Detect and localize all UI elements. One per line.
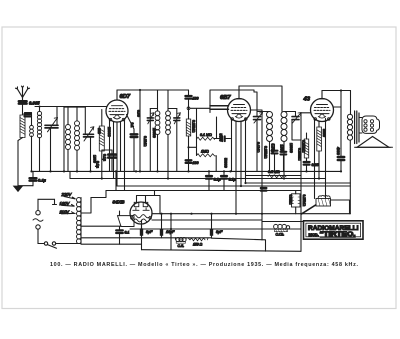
svg-text:8µF: 8µF	[216, 230, 223, 234]
IF2 secondary coil	[281, 112, 296, 179]
wire x=341 down	[340, 91, 342, 157]
capacitor 100	[185, 90, 191, 119]
svg-text:150 Ω: 150 Ω	[193, 243, 203, 247]
svg-text:0.005: 0.005	[29, 101, 40, 106]
tube V1 6D7	[106, 90, 128, 122]
tube V2 grid box	[210, 90, 254, 113]
svg-text:0.003: 0.003	[271, 144, 275, 153]
capacitor 0.003	[272, 144, 278, 171]
switch to transformer	[56, 243, 77, 245]
wire tube2 plate right	[251, 110, 263, 214]
svg-text:0.25MΩ: 0.25MΩ	[191, 120, 195, 133]
antenna coil L1	[25, 113, 34, 172]
switch contact a	[44, 242, 47, 245]
svg-text:300: 300	[97, 128, 101, 134]
resistor 0.1 Mohm horizontal	[197, 137, 215, 140]
svg-text:110V: 110V	[60, 209, 71, 214]
speaker cone	[355, 137, 393, 148]
wire IF1 secondary top	[167, 90, 169, 109]
wire choke row	[255, 228, 301, 230]
resistor box output divider	[292, 194, 301, 207]
filter capacitor 8uF right	[210, 214, 213, 238]
AVC branch bracket	[189, 108, 211, 155]
svg-text:0.1µ: 0.1µ	[96, 161, 100, 168]
bus y=190.5	[106, 190, 301, 192]
coupling capacitor blob antenna coil	[25, 114, 31, 116]
filter capacitor 16uF	[160, 214, 163, 238]
capacitor 0.1 (ground link)	[30, 171, 37, 185]
svg-text:220V: 220V	[61, 192, 73, 197]
rectifier anode loop	[137, 191, 161, 214]
variable capacitor C1 tuning	[45, 118, 58, 172]
plug wiring top	[38, 199, 57, 210]
wire ground bus link	[18, 185, 33, 187]
grid wire to tube1	[57, 106, 107, 108]
front-end top rail	[35, 106, 57, 108]
screen feed wire	[127, 115, 135, 134]
junction dots filter	[140, 213, 263, 231]
wire box feed	[295, 191, 297, 214]
badge outer box	[304, 221, 364, 239]
capacitor 4000	[338, 157, 344, 171]
capacitor 0.25	[304, 158, 310, 171]
svg-text:“TIRTEO.: “TIRTEO.	[320, 232, 356, 238]
tube3 grid wire	[301, 113, 311, 214]
node dot	[187, 146, 189, 148]
osc feed vertical	[63, 107, 65, 171]
svg-text:160V: 160V	[60, 201, 71, 206]
tuning coil L2	[37, 107, 41, 172]
wire IF1 primary top	[157, 90, 159, 109]
rectifier tube 84XB	[130, 202, 152, 224]
wire 1M right end down	[215, 156, 217, 172]
IF1 trimmer left	[147, 109, 157, 172]
filter cap row y=229	[130, 228, 272, 230]
tube3 pins	[315, 119, 326, 199]
wire tube3 plate to x341	[334, 106, 342, 108]
svg-text:0.1MΩ: 0.1MΩ	[256, 142, 260, 153]
switch blade	[48, 245, 57, 249]
capacitor 1000	[281, 145, 287, 171]
osc coil L4	[75, 107, 80, 171]
top rail tube2 to IF2	[239, 86, 282, 112]
svg-text:0.05: 0.05	[136, 110, 140, 117]
transformer lower taps	[81, 225, 121, 227]
wire rectifier cathode to filter	[141, 224, 143, 230]
svg-text:0.25MΩ: 0.25MΩ	[264, 146, 268, 159]
osc top rail	[64, 106, 85, 108]
node dot	[340, 89, 342, 91]
top rail tube1 to IF1	[117, 89, 189, 91]
filter capacitor 8uF	[140, 220, 143, 238]
capacitor blob x263.5 on 190.5	[261, 188, 267, 191]
resistor 0.25M left of tube3	[304, 133, 308, 158]
svg-text:43: 43	[303, 97, 311, 103]
svg-text:50000: 50000	[224, 158, 228, 168]
choke row y=237.8	[130, 237, 212, 239]
resistor 150 ohm	[188, 238, 208, 241]
svg-text:0.1 MΩ: 0.1 MΩ	[200, 133, 212, 137]
mains plug pin 1	[36, 211, 40, 215]
svg-text:0.25MΩ: 0.25MΩ	[302, 140, 306, 153]
resistor 0.5 Mohm horizontal	[268, 175, 286, 178]
choke C.S.	[176, 238, 187, 244]
svg-text:8µF: 8µF	[146, 230, 153, 234]
junction dots buses	[30, 170, 342, 187]
IF1 primary coil	[155, 109, 160, 172]
svg-text:MOD.: MOD.	[309, 232, 319, 237]
svg-text:100: 100	[193, 161, 199, 165]
svg-text:0.25MΩ: 0.25MΩ	[302, 195, 306, 207]
plug wiring bottom	[38, 229, 44, 243]
wire output transformer drop	[350, 91, 352, 114]
resistor 0.25M diode load	[186, 119, 190, 171]
badge feed y=221.5	[262, 221, 303, 223]
wire y=240 to corner	[212, 238, 266, 251]
resistor 10000 (osc grid R)	[99, 110, 112, 179]
svg-text:1MΩ: 1MΩ	[201, 150, 209, 154]
choke C.Ch.	[272, 224, 290, 231]
top cap rail tube3	[322, 90, 351, 92]
svg-text:C.S.: C.S.	[178, 244, 185, 248]
antenna series capacitor 0.005	[19, 101, 27, 114]
bottom line	[142, 250, 302, 252]
bus y=186	[117, 185, 350, 187]
wire antenna resistor to ground	[18, 138, 23, 186]
screen dropper vertical wire	[139, 90, 141, 171]
filter bus y=213.7	[152, 213, 350, 215]
osc coil L3	[66, 107, 71, 171]
wire x=301 down	[300, 214, 302, 252]
capacitor 0.1 mid blob	[206, 171, 212, 190]
filter bus y=220	[152, 219, 262, 221]
bus y=183	[246, 182, 351, 184]
svg-text:10000: 10000	[289, 143, 293, 153]
socket wire	[119, 211, 121, 244]
svg-text:6B7: 6B7	[220, 95, 231, 101]
svg-text:5000: 5000	[322, 129, 326, 137]
tap 110V	[62, 212, 75, 214]
antenna	[15, 86, 29, 100]
tube1 pins	[110, 120, 125, 191]
node dot	[139, 170, 141, 172]
bus y=178.5	[70, 178, 326, 180]
IF2 trimmer left	[254, 92, 270, 171]
tap 220V	[64, 197, 76, 200]
ground	[14, 186, 23, 192]
IF1 trimmer right	[168, 109, 180, 172]
svg-text:0.1µ: 0.1µ	[103, 154, 107, 161]
variable capacitor C2 osc	[84, 107, 94, 171]
svg-text:0.25: 0.25	[312, 163, 319, 167]
svg-text:84XB: 84XB	[113, 200, 126, 206]
cathode bypass capacitor 0.1	[108, 150, 115, 171]
capacitor 100 lower blob	[186, 160, 192, 163]
fuse squiggle	[33, 219, 43, 222]
diag wire field coil	[301, 205, 316, 215]
field coil	[301, 195, 350, 214]
wire x=141.5 drop	[141, 238, 143, 250]
capacitor 0.1 socket	[116, 230, 123, 233]
badge underline	[320, 237, 356, 239]
IF2 primary coil	[267, 112, 273, 172]
heater return line	[81, 243, 142, 245]
screen capacitor 0.1	[131, 134, 138, 171]
main bus y=171.4	[32, 170, 342, 172]
svg-text:0.1µ: 0.1µ	[38, 178, 47, 183]
svg-text:6D7: 6D7	[120, 94, 131, 100]
output transformer core	[355, 111, 359, 144]
AVC junction circle	[187, 107, 190, 110]
svg-text:0.1: 0.1	[125, 231, 130, 235]
cathode resistor tube3	[317, 122, 322, 179]
transformer HV tap wires	[81, 191, 106, 214]
svg-text:0.2MΩ: 0.2MΩ	[143, 136, 147, 147]
tap 160V	[62, 205, 75, 207]
capacitor blob x224	[221, 171, 227, 190]
IF2 trimmer right	[292, 112, 301, 141]
node dot	[39, 106, 41, 108]
tube V3 43	[311, 91, 334, 122]
IF1 secondary coil	[166, 109, 171, 179]
svg-text:100. — RADIO MARELLI. — Modell: 100. — RADIO MARELLI. — Modello « Tirteo…	[50, 262, 358, 268]
bus y=175.5	[246, 175, 302, 177]
svg-text:5000: 5000	[219, 134, 223, 142]
rectifier socket box	[118, 216, 135, 227]
output transformer primary	[347, 113, 352, 214]
capacitor 5000	[217, 136, 231, 141]
svg-text:20000: 20000	[107, 127, 111, 137]
svg-text:0.5MΩ: 0.5MΩ	[289, 195, 293, 205]
speaker magnet pot	[359, 116, 380, 133]
wire varcap1 drop	[56, 107, 58, 125]
tube V2 6B7	[228, 86, 251, 122]
wire x=70 link	[69, 171, 71, 178]
svg-text:1000: 1000	[280, 145, 284, 153]
resistor antenna shunt	[20, 115, 25, 138]
wire x=116 drop	[115, 171, 117, 190]
wire 0.1M right end	[214, 117, 217, 139]
switch contact b	[52, 242, 55, 245]
power transformer primary	[77, 198, 82, 244]
svg-text:100: 100	[193, 97, 199, 101]
tube2 pins	[232, 119, 246, 214]
svg-text:C.Ch.: C.Ch.	[276, 233, 285, 237]
mains plug pin 2	[36, 225, 40, 229]
svg-text:4000: 4000	[336, 147, 340, 155]
vertical x=171 down	[170, 214, 172, 250]
resistor 1 Mohm horizontal	[197, 154, 217, 157]
wire x=262 down	[261, 214, 263, 240]
